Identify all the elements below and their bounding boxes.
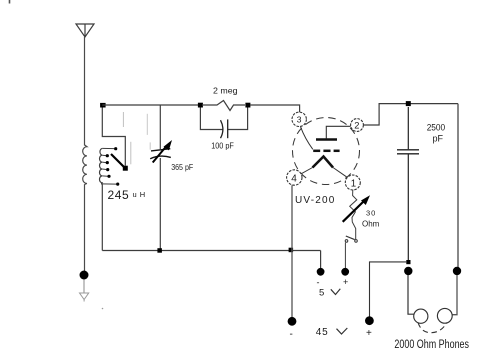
wire switch square to top bus [102,108,125,166]
tap top lead [102,147,114,149]
svg-text:1: 1 [351,178,356,189]
variable capacitor arrow [153,146,167,163]
svg-text:100 pF: 100 pF [211,142,234,151]
inductor secondary tapped coil 245 uH [99,148,102,184]
svg-text:-: - [317,278,320,288]
wire junction D to 2500pF [407,107,409,149]
resistor 2 meg [202,101,245,111]
wire to left earpiece [408,275,414,314]
antenna [76,24,94,37]
right rail down [457,104,459,271]
junction A [100,103,106,108]
scan artifact tick top-left [9,0,11,4]
tap bottom lead [101,183,116,185]
pin 2 [351,119,364,132]
capacitor 100 pF straight plate [227,119,229,138]
variable capacitor 365 pF bottom plate [150,156,171,159]
junction B [198,103,203,108]
svg-text:3: 3 [297,114,302,124]
phone terminal left [404,267,412,275]
svg-text:5: 5 [319,287,324,298]
wire variable cap to bottom bus [159,158,161,251]
svg-text:+: + [366,328,372,339]
tap switch arm [111,154,125,168]
junction D [406,101,411,106]
svg-text:2500: 2500 [427,123,446,133]
wire C to pin3 [250,105,300,113]
filament lead to pin 1 [333,168,347,178]
rheostat arrow [343,201,364,222]
tube grid [313,150,339,153]
svg-text:Ohm: Ohm [362,220,380,229]
wire 2500pF down [407,155,409,263]
phone terminal right [453,267,461,275]
svg-text:+: + [343,277,348,287]
pin 4 [287,170,302,185]
ground [80,293,89,302]
tube filament [313,157,334,168]
svg-text:u H: u H [133,190,146,199]
bottom bus [102,250,320,252]
tap 2 [102,154,106,156]
svg-text:365 pF: 365 pF [171,163,193,172]
stray speck artifact [102,308,104,310]
wire to ground [83,280,85,293]
tube plate lead [326,126,351,138]
earpiece left [414,309,428,323]
battery 5V minus terminal [317,268,325,276]
battery 5V plus terminal [341,268,349,276]
tap switch square [123,166,128,171]
variable capacitor 365 pF top plate [151,149,170,151]
terminal dot antenna ground [80,271,89,280]
filament lead to pin 4 [300,168,313,175]
wire pin2 to top right [363,104,458,125]
junction E [406,260,410,264]
svg-text:-: - [290,329,293,340]
tap 5 [102,175,107,177]
svg-text:245: 245 [108,188,130,202]
svg-text:2 meg: 2 meg [213,87,238,96]
wire coil bottom to bus [101,184,103,250]
wire bus to 5V minus [320,251,322,269]
wire bus to variable cap [159,105,161,149]
svg-text:4: 4 [291,173,297,184]
junction C [245,103,250,108]
wire to right earpiece [452,275,457,315]
svg-text:2000 Ohm Phones: 2000 Ohm Phones [394,339,469,351]
battery 45V plus terminal [365,316,374,325]
wire switch to 5V plus [344,243,346,268]
pin 1 [345,175,360,190]
capacitor 100 pF loop [200,108,223,130]
tube grid lead [300,126,313,150]
svg-text:45: 45 [316,327,329,338]
filament switch [345,240,348,243]
svg-text:30: 30 [366,208,376,217]
pin 3 [292,112,306,126]
phones cord [418,323,447,333]
svg-text:2: 2 [354,120,359,130]
junction G [289,248,294,253]
svg-text:pF: pF [433,134,444,144]
wire coil to terminal [84,184,86,271]
svg-text:UV-200: UV-200 [295,195,336,206]
inductor primary coil [83,145,87,185]
wire antenna down [84,37,86,146]
earpiece right [437,308,452,323]
tube envelope [293,118,360,185]
wire top bus [102,104,199,106]
wire 45V plus up to junction E [370,262,407,317]
capacitor 100 pF curved plate [221,120,223,138]
tube plate [316,138,337,141]
faint artifact lines [122,112,124,127]
tap 3 [102,161,106,164]
battery 45V minus terminal [288,317,297,326]
capacitor 2500 pF [397,149,419,151]
tap 4 [102,168,106,171]
junction F [157,248,162,253]
rheostat wire from pin1 [350,190,357,240]
wire pin4 down to 45V minus [291,185,293,317]
